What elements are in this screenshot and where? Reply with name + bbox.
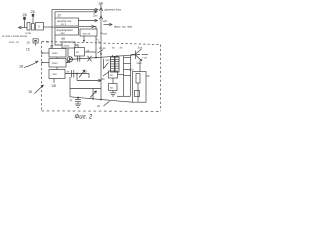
svg-text:ххх хх: ххх хх	[83, 31, 91, 35]
arrowhead L3	[92, 25, 95, 28]
wire top x55	[55, 12, 97, 18]
svg-text:15: 15	[26, 47, 30, 51]
svg-text:2хх: 2хх	[93, 13, 98, 17]
svg-text:2хх: 2хх	[138, 46, 143, 50]
leader below bus	[104, 101, 110, 106]
sensor D1 lead	[24, 17, 26, 28]
svg-text:г-хх: г-хх	[143, 56, 148, 59]
svg-text:ххх: ххх	[61, 31, 66, 35]
leader arrow 15 lower	[35, 85, 44, 93]
wire R2 area to rect	[117, 95, 131, 97]
wire R1 out	[118, 74, 124, 76]
T3 diagonals	[136, 49, 142, 61]
ground R2	[112, 91, 114, 93]
svg-text:28: 28	[52, 84, 56, 88]
svg-text:26: 26	[29, 90, 33, 94]
svg-text:форс. гор. газа: форс. гор. газа	[114, 24, 132, 28]
svg-text:хх х: хх х	[61, 22, 67, 26]
box W2	[75, 48, 85, 57]
row wire	[65, 73, 89, 75]
wire A1 to B boxes	[44, 26, 56, 28]
svg-text:ххх: ххх	[53, 72, 58, 76]
cap C2 lead top	[77, 98, 79, 100]
arrowhead up 1	[99, 8, 102, 11]
svg-text:26: 26	[23, 13, 27, 17]
box R1	[109, 71, 118, 78]
transistor T2	[104, 59, 109, 69]
svg-text:х2х: х2х	[129, 68, 134, 72]
dashed enclosure top edge	[42, 42, 161, 45]
transformer winding 1	[111, 57, 115, 72]
inner lead	[137, 83, 139, 102]
svg-text:ххх: ххх	[106, 58, 111, 62]
arrow component	[79, 70, 85, 78]
box B1	[55, 18, 79, 26]
tick below small box	[35, 43, 37, 46]
svg-text:Фиг. 2: Фиг. 2	[75, 114, 93, 120]
var resistor lead	[92, 89, 94, 99]
sensor D2 lead	[32, 14, 34, 23]
svg-text:25: 25	[31, 10, 35, 14]
junction dot row	[76, 73, 78, 75]
box B2	[55, 28, 79, 36]
junction dot bus x96	[95, 57, 97, 59]
box A1	[36, 23, 44, 31]
leader to 24	[100, 4, 103, 6]
wire W1 down to T1	[67, 49, 69, 57]
junction blob	[83, 40, 85, 42]
input wire	[19, 27, 28, 29]
right cluster vertical x101 lower	[100, 55, 102, 100]
X component on bus	[88, 56, 92, 62]
arrowhead top1	[95, 8, 98, 11]
svg-text:15: 15	[27, 41, 31, 45]
horizontal y88	[70, 88, 101, 90]
ground C2	[77, 102, 79, 104]
stack box S3	[49, 70, 65, 79]
wire R1-R2	[112, 78, 114, 84]
T3 wire right	[142, 54, 149, 56]
input arrowhead	[19, 26, 22, 29]
tall rect	[133, 72, 147, 103]
capacitor C1 vertical	[32, 24, 35, 31]
svg-text:27: 27	[50, 45, 54, 49]
vertical x70 down	[69, 77, 71, 97]
svg-text:хзхх: хзхх	[137, 62, 143, 65]
inner element	[136, 74, 140, 84]
cap ticks on bus	[77, 56, 79, 62]
wire B2 left edge down	[55, 35, 62, 45]
svg-text:2х: 2х	[102, 77, 106, 81]
transformer top stubs	[112, 55, 114, 57]
tick right of rect	[146, 75, 150, 77]
small box bottom of tall rect	[135, 91, 140, 97]
junction dot vr	[92, 98, 94, 100]
box R2	[109, 84, 118, 91]
wire S1-S2	[56, 57, 58, 59]
svg-text:2г: 2г	[58, 14, 62, 18]
svg-text:Рххх: Рххх	[101, 32, 108, 36]
ladder rail right	[130, 56, 132, 97]
T3 bar	[131, 51, 136, 60]
svg-text:2х: 2х	[97, 104, 101, 108]
small box near dashed corner	[33, 39, 38, 43]
wire W1-W2	[75, 45, 78, 48]
svg-text:хх хххх х ххххх хххххх: хх хххх х ххххх хххххх	[2, 35, 28, 38]
svg-text:24: 24	[99, 2, 103, 6]
T3 down lead	[139, 61, 141, 72]
stack box S2	[49, 59, 66, 68]
box W1	[62, 42, 75, 48]
wire S3 label tick	[53, 79, 55, 84]
transformer winding 2	[115, 57, 119, 72]
svg-text:давление блок: давление блок	[105, 8, 122, 11]
svg-text:хххх: хххх	[64, 43, 70, 47]
short right arrow	[104, 24, 112, 26]
svg-text:16: 16	[19, 64, 23, 68]
main vertical line x101	[100, 6, 102, 55]
svg-text:2х хх: 2х хх	[99, 46, 106, 50]
horizontal y80	[77, 80, 101, 82]
svg-text:хххх: хххх	[52, 51, 58, 55]
junction dot C2	[77, 97, 79, 99]
cap C2 plates	[75, 99, 81, 101]
leader squiggle 16	[24, 62, 38, 68]
arrowhead top2	[94, 10, 97, 13]
arrowhead leader 16	[35, 61, 38, 63]
junction dot S2 wire	[41, 62, 43, 64]
wire B3 right down	[95, 36, 97, 58]
sensor D2 body	[32, 14, 34, 17]
wire top long x52	[52, 10, 98, 49]
sensor D1 body	[23, 17, 26, 20]
vertical x77 to y80 line	[76, 74, 78, 81]
wire edge to S2	[42, 62, 49, 64]
wire B1 out	[79, 20, 98, 22]
arrowhead up 2	[99, 16, 102, 19]
ladder rungs	[124, 57, 131, 59]
junction dot bus x101	[100, 53, 102, 55]
winding 2 fill lines	[115, 59, 119, 68]
wire L3	[79, 26, 95, 28]
capacitor bars vertical	[71, 70, 73, 78]
ladder rail left	[123, 56, 125, 96]
svg-text:х2х: х2х	[103, 19, 108, 23]
wire W2 right	[85, 51, 97, 53]
var resistor arrow	[90, 91, 96, 98]
stack box S1	[49, 49, 66, 58]
arrowhead L2	[95, 19, 98, 22]
svg-text:хххх: хххх	[52, 61, 58, 65]
wire S2 out	[66, 62, 69, 64]
svg-text:1п: 1п	[46, 40, 50, 44]
leader arrow top cluster	[98, 50, 104, 54]
wire S2-S3	[56, 67, 58, 70]
dashed enclosure right edge	[160, 45, 162, 112]
arrowhead right	[109, 23, 112, 26]
svg-text:формироват: формироват	[57, 28, 74, 32]
wire edge to S1	[42, 52, 49, 54]
svg-text:гх вх: гх вх	[25, 31, 32, 35]
wire into B3	[95, 27, 97, 30]
middle bus	[69, 55, 140, 60]
resistor R1 vertical	[27, 23, 30, 31]
transistor T1	[67, 57, 72, 64]
winding 1 fill lines	[111, 59, 115, 68]
hook down	[88, 74, 90, 79]
junction dot S1 wire	[41, 52, 43, 54]
svg-text:хххх - хх: хххх - хх	[9, 41, 19, 44]
wire B3 bottom stub	[83, 36, 85, 42]
dashed enclosure bottom edge	[42, 110, 161, 112]
leader arrow R1	[103, 72, 109, 76]
bottom bus	[70, 97, 133, 102]
tiny text labels	[2, 2, 148, 108]
svg-text:қо: қо	[62, 37, 66, 41]
box B3	[80, 29, 97, 36]
dashed enclosure left edge	[41, 42, 43, 111]
